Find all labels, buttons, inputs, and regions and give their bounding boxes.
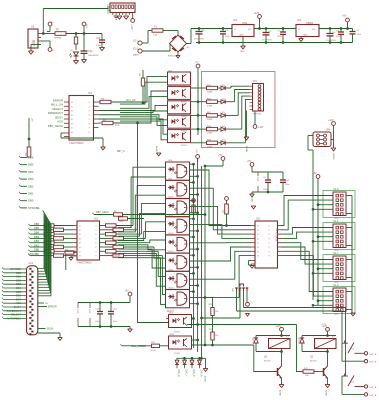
regulator IC3 7812 — [232, 25, 254, 37]
svg-text:Y7: Y7 — [268, 251, 270, 253]
capacitor C5 — [329, 27, 332, 30]
svg-text:DB2: DB2 — [28, 184, 34, 188]
svg-text:VO: VO — [312, 29, 315, 31]
resistor R3 — [99, 101, 101, 103]
svg-text:OK14: OK14 — [168, 269, 174, 271]
svg-text:+12V: +12V — [258, 127, 264, 129]
regulator IC4 7805 — [296, 25, 319, 37]
ground arrow left of opto column — [156, 152, 161, 154]
svg-text:PC817: PC817 — [174, 332, 181, 334]
svg-text:OUT_A: OUT_A — [369, 394, 377, 397]
svg-text:100n: 100n — [263, 189, 267, 191]
svg-text:ERROR: ERROR — [48, 306, 57, 309]
svg-text:IC2P: IC2P — [88, 309, 90, 314]
svg-text:100n: 100n — [96, 45, 102, 47]
svg-text:DIR_A: DIR_A — [200, 370, 203, 377]
svg-text:Y5: Y5 — [88, 119, 90, 121]
svg-text:100n: 100n — [357, 34, 361, 36]
diode D1 suppressor — [75, 34, 77, 38]
svg-text:VCC: VCC — [85, 24, 87, 29]
relay contact K2 OUT_B — [344, 341, 346, 344]
net SELIN label — [38, 328, 46, 330]
resistor R13 pull — [212, 298, 214, 308]
svg-text:OK6: OK6 — [168, 114, 172, 116]
ground AGND panel — [246, 111, 248, 138]
svg-text:DB7_G: DB7_G — [117, 151, 125, 153]
svg-text:100n: 100n — [336, 36, 340, 38]
svg-text:IC1P: IC1P — [76, 309, 78, 314]
svg-text:+12V: +12V — [328, 120, 334, 122]
supply +5V pad left — [196, 155, 200, 159]
svg-text:Y2: Y2 — [268, 230, 270, 232]
capacitor C12 — [83, 34, 85, 52]
wire +V rail — [191, 28, 232, 30]
optocoupler OK9 — [169, 315, 192, 328]
ground connectors — [351, 218, 353, 314]
green box Os-A — [323, 191, 355, 218]
resistor R21 — [119, 217, 128, 220]
svg-text:A4: A4 — [257, 237, 259, 240]
svg-text:+12V: +12V — [276, 326, 282, 328]
svg-text:100n: 100n — [277, 36, 281, 38]
svg-text:Y7: Y7 — [88, 128, 90, 130]
capacitor C4 — [265, 27, 268, 30]
svg-text:AGND: AGND — [251, 196, 254, 202]
ground pins CN1 — [114, 15, 119, 17]
resistor R20 OE — [65, 251, 74, 254]
supply +12V — [258, 15, 262, 19]
wire OK9 output — [192, 318, 194, 320]
wire relay B bottom — [302, 351, 328, 353]
relay contact K1 OUT_A — [342, 375, 346, 377]
svg-text:DB0: DB0 — [28, 199, 34, 203]
svg-text:A4: A4 — [79, 237, 81, 240]
IC1P power pins — [77, 303, 79, 309]
svg-text:100n: 100n — [285, 184, 289, 186]
capacitor C7b — [352, 29, 354, 32]
svg-text:OUT_B: OUT_B — [369, 362, 377, 364]
+5V pad right — [316, 175, 320, 179]
svg-text:MAB2: MAB2 — [133, 54, 140, 57]
+12V vertical distribution — [312, 150, 314, 300]
svg-text:A7: A7 — [71, 127, 73, 130]
svg-text:200R: 200R — [207, 119, 213, 121]
bridge rectifier B1 — [170, 35, 187, 52]
capacitor C7 — [282, 27, 285, 30]
svg-text:C12: C12 — [88, 50, 93, 53]
fuse F1 — [152, 29, 163, 32]
svg-text:USB: USB — [32, 39, 36, 47]
svg-text:IC3: IC3 — [233, 19, 238, 22]
svg-text:+5V: +5V — [195, 62, 199, 64]
svg-text:A8: A8 — [79, 255, 81, 258]
net ERROR label — [38, 306, 47, 308]
svg-text:Y6: Y6 — [88, 123, 90, 125]
svg-text:200R: 200R — [151, 350, 156, 352]
connector Os-X — [333, 288, 346, 312]
ground USB shield — [30, 45, 32, 52]
green box Os-X — [323, 287, 355, 314]
connector Os-Z — [333, 224, 346, 248]
wire F2 to C13 — [66, 33, 102, 35]
DB25 right fan wires — [38, 212, 44, 269]
svg-text:X1-1: X1-1 — [133, 40, 139, 43]
svg-text:AGND: AGND — [325, 390, 328, 396]
svg-text:OK5: OK5 — [168, 99, 172, 101]
svg-text:1N4004: 1N4004 — [252, 337, 254, 345]
IC2P power pins — [89, 303, 91, 309]
svg-text:IC4: IC4 — [297, 19, 302, 22]
svg-text:+5V: +5V — [125, 291, 130, 293]
capacitor C15 — [110, 303, 112, 312]
svg-text:+5V: +5V — [247, 161, 252, 163]
green box Os-Z — [323, 223, 355, 250]
opto right pin connections — [190, 163, 194, 165]
svg-text:Os-X: Os-X — [333, 284, 339, 287]
svg-text:IC6: IC6 — [256, 218, 261, 221]
svg-text:OK3: OK3 — [168, 70, 172, 72]
diode D13 1N4004 — [301, 336, 303, 339]
connector Os-A — [333, 192, 346, 216]
wire MILL_ON long vertical — [136, 122, 139, 125]
connector JP1 in panel — [253, 84, 264, 112]
svg-text:Y2: Y2 — [95, 230, 97, 232]
pad +12V JP4 — [332, 122, 336, 126]
wires IC1 to optocouplers OK3-OK7 — [111, 77, 168, 102]
svg-text:CU1: CU1 — [29, 263, 34, 265]
svg-text:IC1: IC1 — [88, 92, 93, 95]
ground IC power — [78, 326, 130, 328]
svg-text:Y6: Y6 — [95, 247, 97, 249]
svg-text:D-: D- — [52, 50, 55, 52]
svg-text:200R: 200R — [207, 133, 213, 135]
relay K2 coil — [315, 339, 337, 349]
terminal X1-1 — [138, 41, 142, 45]
svg-text:AGND: AGND — [245, 146, 248, 153]
svg-text:DIR_Y: DIR_Y — [185, 370, 188, 377]
svg-text:OK10: OK10 — [168, 197, 174, 199]
svg-text:A2: A2 — [71, 105, 73, 108]
output resistors 8x300R — [100, 225, 106, 227]
ground decoupling — [252, 191, 283, 193]
svg-text:+5V: +5V — [195, 149, 197, 153]
svg-text:A7: A7 — [257, 250, 259, 253]
svg-text:STROBE: STROBE — [28, 206, 40, 210]
svg-text:DB1: DB1 — [28, 192, 34, 196]
wire JP1 to +12V pad — [254, 111, 256, 125]
svg-text:AGND: AGND — [279, 390, 282, 396]
svg-text:BC547: BC547 — [264, 361, 271, 363]
resistor R11 base — [187, 324, 297, 326]
svg-text:Y5: Y5 — [268, 243, 270, 245]
svg-text:A1: A1 — [257, 225, 259, 228]
svg-text:SELIN: SELIN — [47, 328, 54, 331]
connector Os-Y — [333, 256, 346, 280]
supply +5V — [346, 18, 350, 22]
svg-text:Y1: Y1 — [88, 102, 90, 104]
svg-text:100n: 100n — [225, 36, 229, 38]
svg-text:A5: A5 — [79, 242, 81, 245]
ground DB25 shield — [38, 332, 60, 334]
capacitor C3 — [222, 27, 225, 30]
svg-text:AGND: AGND — [332, 154, 335, 160]
wire OK10 output to Q1 — [192, 344, 254, 346]
svg-text:OK13: OK13 — [168, 251, 174, 253]
svg-text:74HCT541N: 74HCT541N — [77, 261, 92, 265]
svg-text:A7: A7 — [79, 250, 81, 253]
wire bridge to rail — [187, 43, 192, 45]
svg-text:BC547: BC547 — [310, 361, 317, 363]
ferrite F2 — [55, 32, 66, 36]
svg-text:+5V: +5V — [313, 173, 318, 175]
svg-text:RFPU16: RFPU16 — [253, 114, 262, 116]
svg-text:74HCT541N: 74HCT541N — [275, 228, 278, 242]
svg-text:Y5: Y5 — [95, 243, 97, 245]
svg-text:SFE6A: SFE6A — [54, 37, 61, 40]
svg-text:A3: A3 — [71, 110, 73, 113]
svg-text:Y1: Y1 — [95, 226, 97, 228]
svg-text:7812: 7812 — [242, 23, 248, 25]
svg-text:1N4004: 1N4004 — [298, 337, 300, 345]
svg-text:Y1: Y1 — [268, 226, 270, 228]
svg-text:Y2: Y2 — [88, 106, 90, 108]
diode row D8-D11 — [176, 357, 201, 359]
svg-text:Y3: Y3 — [88, 111, 90, 113]
svg-text:Y4: Y4 — [95, 238, 97, 240]
svg-text:DB3: DB3 — [28, 177, 34, 181]
IC6P power pin hints — [257, 172, 259, 176]
svg-text:GND: GND — [239, 35, 244, 37]
svg-text:470uF/16V: 470uF/16V — [262, 40, 272, 42]
wire relay A top — [256, 335, 290, 337]
wires IC2 outputs to opto column inputs — [133, 167, 166, 225]
svg-text:200R: 200R — [207, 105, 213, 107]
svg-text:AGND: AGND — [155, 146, 158, 152]
ground IC6 OE — [249, 260, 252, 262]
svg-text:+5V: +5V — [218, 155, 223, 157]
svg-text:470uF/35V: 470uF/35V — [194, 39, 204, 41]
svg-text:VO: VO — [248, 29, 251, 31]
svg-text:+12V: +12V — [130, 24, 132, 30]
svg-text:GND: GND — [303, 35, 308, 37]
svg-text:A8: A8 — [257, 255, 259, 258]
capacitor C1 — [198, 27, 201, 30]
svg-text:Y7: Y7 — [95, 251, 97, 253]
pad VCC — [82, 22, 86, 26]
wire relay A bottom — [256, 351, 282, 353]
svg-text:GND: GND — [240, 51, 245, 53]
capacitor C9 — [252, 171, 283, 173]
svg-text:Y4: Y4 — [88, 115, 90, 117]
pad JP3 — [246, 291, 248, 303]
svg-text:300R: 300R — [119, 221, 124, 223]
svg-text:DIR_Z: DIR_Z — [192, 370, 195, 377]
IC IC1 74HCT541 — [69, 96, 94, 141]
ground IC2 OE pin — [71, 255, 73, 257]
capacitor C10 — [282, 172, 284, 180]
svg-text:A3: A3 — [79, 233, 81, 236]
capacitor C13 — [101, 34, 103, 41]
svg-text:Y8: Y8 — [95, 256, 97, 258]
svg-text:C13: C13 — [96, 38, 101, 40]
svg-text:DIR_X: DIR_X — [177, 370, 180, 377]
LED D2 — [74, 52, 79, 56]
resistor R4 — [99, 122, 102, 124]
net stubs DB6-STROBE — [19, 156, 21, 158]
svg-text:AGND: AGND — [204, 376, 207, 382]
net PE label — [38, 302, 44, 304]
svg-text:PC817: PC817 — [181, 145, 187, 147]
svg-text:A5: A5 — [257, 242, 259, 245]
svg-text:200R: 200R — [207, 92, 213, 94]
wire USB VCC to rail — [41, 33, 55, 35]
resistor R2 2k2 pull — [142, 70, 144, 78]
svg-text:+12V: +12V — [322, 326, 328, 328]
svg-text:Y3: Y3 — [95, 234, 97, 236]
svg-text:A4: A4 — [71, 114, 73, 117]
svg-text:OK11: OK11 — [168, 215, 174, 217]
wire fuse to bridge — [163, 30, 178, 32]
svg-text:Os-Y: Os-Y — [333, 252, 339, 255]
svg-text:100n: 100n — [95, 321, 99, 323]
diode D12 1N4004 — [255, 336, 257, 339]
wire X1-1 to fuse — [142, 42, 148, 44]
wire relay B top — [302, 335, 336, 337]
vertical bus left of relays — [193, 164, 195, 348]
svg-text:Os-A: Os-A — [333, 188, 339, 191]
ground arrow near IC6 top — [251, 205, 256, 207]
pad D- — [48, 48, 52, 52]
optocoupler column OK3-OK7 PC817 — [168, 72, 191, 85]
svg-text:DB4: DB4 — [28, 170, 34, 174]
svg-text:OK10: OK10 — [169, 334, 175, 336]
IC IC6 74HCT541 — [255, 221, 278, 268]
LED panel outline — [202, 72, 276, 148]
svg-text:74HCT541N: 74HCT541N — [69, 141, 84, 145]
svg-text:A6: A6 — [71, 122, 73, 125]
svg-text:Os-Z: Os-Z — [333, 220, 339, 223]
resistor R2 pullup — [225, 197, 229, 201]
svg-text:Y8: Y8 — [268, 256, 270, 258]
svg-text:A2: A2 — [79, 229, 81, 232]
relay K1 coil — [269, 339, 291, 349]
supply +12V relay A — [280, 327, 284, 331]
svg-text:OUT_A: OUT_A — [369, 386, 377, 389]
svg-text:A1: A1 — [79, 225, 81, 228]
pad +12V panel — [253, 125, 257, 129]
svg-text:IC2: IC2 — [94, 218, 99, 221]
svg-text:+5V: +5V — [342, 15, 347, 18]
supply +5V pad opto column top — [196, 64, 200, 68]
svg-text:OUT_B: OUT_B — [369, 354, 377, 356]
optocoupler OK10 — [169, 336, 192, 349]
green box Os-Y — [323, 255, 355, 282]
resistor R1 pull — [28, 118, 30, 147]
IC IC2 74HCT541 — [77, 221, 100, 260]
connector CU1 DB25 — [27, 266, 38, 335]
svg-text:Y6: Y6 — [268, 247, 270, 249]
svg-text:OK7: OK7 — [168, 128, 172, 130]
svg-text:A8: A8 — [71, 131, 73, 134]
svg-text:Y3: Y3 — [268, 234, 270, 236]
supply +12V relay B — [326, 327, 330, 331]
ground Q2 — [325, 384, 330, 386]
wire VCC rail IC power — [78, 302, 130, 304]
capacitor C8 — [340, 27, 343, 30]
svg-text:+12V: +12V — [334, 314, 339, 316]
connector X5 USB — [28, 29, 38, 48]
svg-text:T1A: T1A — [153, 34, 158, 37]
ground Q1 — [279, 384, 284, 386]
supply +5V pad mid — [221, 157, 225, 161]
svg-text:OK15: OK15 — [168, 288, 174, 290]
terminal X1-2 — [138, 49, 142, 53]
svg-text:DB7_GEXO: DB7_GEXO — [96, 211, 109, 214]
jumper JP4 — [313, 132, 331, 147]
connector CN1 — [110, 3, 135, 13]
svg-text:CN1: CN1 — [106, 5, 110, 11]
wire ground bus — [196, 42, 353, 44]
svg-text:X1-2: X1-2 — [133, 48, 139, 51]
supply +5V pad decoupling — [250, 163, 254, 167]
svg-text:A1: A1 — [71, 101, 73, 104]
svg-text:+12V: +12V — [254, 12, 260, 15]
svg-text:100uF/05V: 100uF/05V — [88, 55, 99, 57]
svg-text:A2: A2 — [257, 229, 259, 232]
svg-text:8x 300R: 8x 300R — [111, 255, 121, 258]
svg-text:A5: A5 — [71, 118, 73, 121]
svg-text:OK12: OK12 — [168, 233, 174, 235]
svg-text:A6: A6 — [79, 246, 81, 249]
wires JP3 to OUT commons — [345, 308, 347, 377]
wire opto output bus — [197, 68, 199, 135]
svg-text:Y4: Y4 — [268, 238, 270, 240]
resistor R12 pull — [211, 332, 214, 340]
svg-text:DB7_GEXO: DB7_GEXO — [48, 124, 64, 128]
svg-text:100n: 100n — [113, 321, 117, 323]
svg-text:A6: A6 — [257, 246, 259, 249]
capacitor C14 — [99, 303, 101, 312]
svg-text:A3: A3 — [257, 233, 259, 236]
svg-text:78M05: 78M05 — [306, 23, 314, 25]
ground bottom bus — [202, 357, 206, 359]
svg-text:OK4: OK4 — [168, 85, 172, 87]
resistor R14 pull on bus — [192, 199, 196, 203]
wire X1-2 to bridge — [142, 50, 170, 52]
supply +5V pad IC power — [128, 292, 132, 296]
wires opto outputs to IC6 — [190, 170, 252, 226]
svg-text:Y8: Y8 — [88, 132, 90, 134]
optocoupler column OK8-OK15 — [166, 162, 190, 180]
wire IC1 OE to gnd — [61, 132, 64, 134]
pad D+ — [48, 22, 52, 26]
svg-text:IC6P: IC6P — [256, 177, 258, 182]
svg-text:200R: 200R — [207, 146, 213, 148]
svg-text:X5: X5 — [31, 25, 35, 29]
svg-text:DB5: DB5 — [28, 163, 34, 167]
svg-text:PC817: PC817 — [174, 353, 181, 355]
ground JP4 — [333, 140, 335, 149]
pad +12V on CN1 — [132, 15, 134, 19]
wires IC6 outputs to connectors — [281, 196, 333, 226]
wires JP3 to relays — [236, 291, 238, 311]
svg-text:470uF/16V: 470uF/16V — [326, 40, 336, 42]
